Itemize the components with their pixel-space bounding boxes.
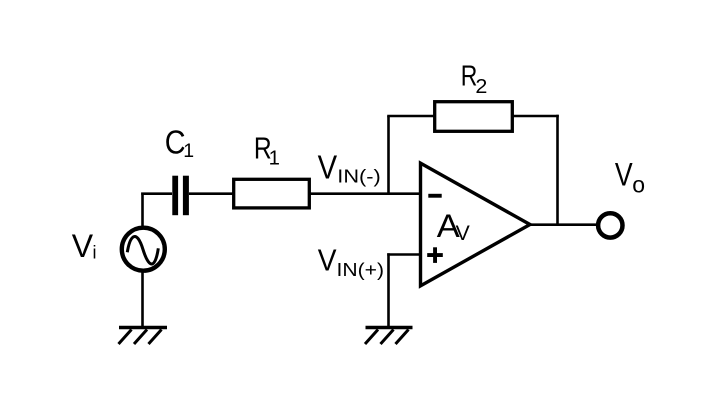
wire op-amp output to Vo terminal [529,223,597,226]
svg-text:o: o [632,172,645,198]
capacitor C1 [172,176,189,216]
ground under non-inverting branch [365,328,413,345]
svg-text:V: V [318,242,337,277]
svg-text:V: V [72,228,94,264]
svg-text:V: V [456,222,471,245]
wire feedback right horizontal [512,115,559,118]
svg-text:1: 1 [183,140,194,162]
wire C1 to R1 [189,192,234,195]
wire feedback left horizontal [387,115,435,118]
label VIN(-) [318,148,381,186]
label AV gain [437,208,471,245]
op-amp U1 triangle [421,163,531,286]
wire non-inverting input horizontal [387,253,420,256]
label R2 [461,61,488,98]
svg-text:2: 2 [475,76,487,98]
wire Vi top vertical [141,193,144,228]
wire Vi bottom vertical to ground [141,272,144,328]
wire from Vi node to C1 [141,192,172,195]
sine wave inside Vi [127,236,158,264]
label Vo [615,157,645,198]
op-amp minus sign [428,194,441,198]
wire feedback right vertical down to output node [556,115,559,225]
label C1 [165,123,194,162]
svg-text:IN(+): IN(+) [337,260,385,280]
wire R1 to op-amp inverting input [310,192,421,195]
label VIN(+) [318,242,384,280]
resistor R1 [234,179,310,208]
wire R2 branch vertical (node VIN- up to feedback) [387,116,390,195]
svg-text:IN(-): IN(-) [337,166,381,187]
label Vi [72,228,97,264]
label R1 [254,130,280,169]
svg-text:V: V [615,157,633,193]
ground under Vi [119,328,168,345]
wire non-inverting branch vertical down to ground [387,253,390,327]
output terminal circle Vo [598,213,622,237]
svg-text:i: i [93,242,97,262]
source Vi circle [122,228,165,271]
op-amp plus sign [427,247,443,263]
svg-text:1: 1 [269,148,280,170]
resistor R2 [435,102,513,132]
svg-text:V: V [318,148,338,185]
